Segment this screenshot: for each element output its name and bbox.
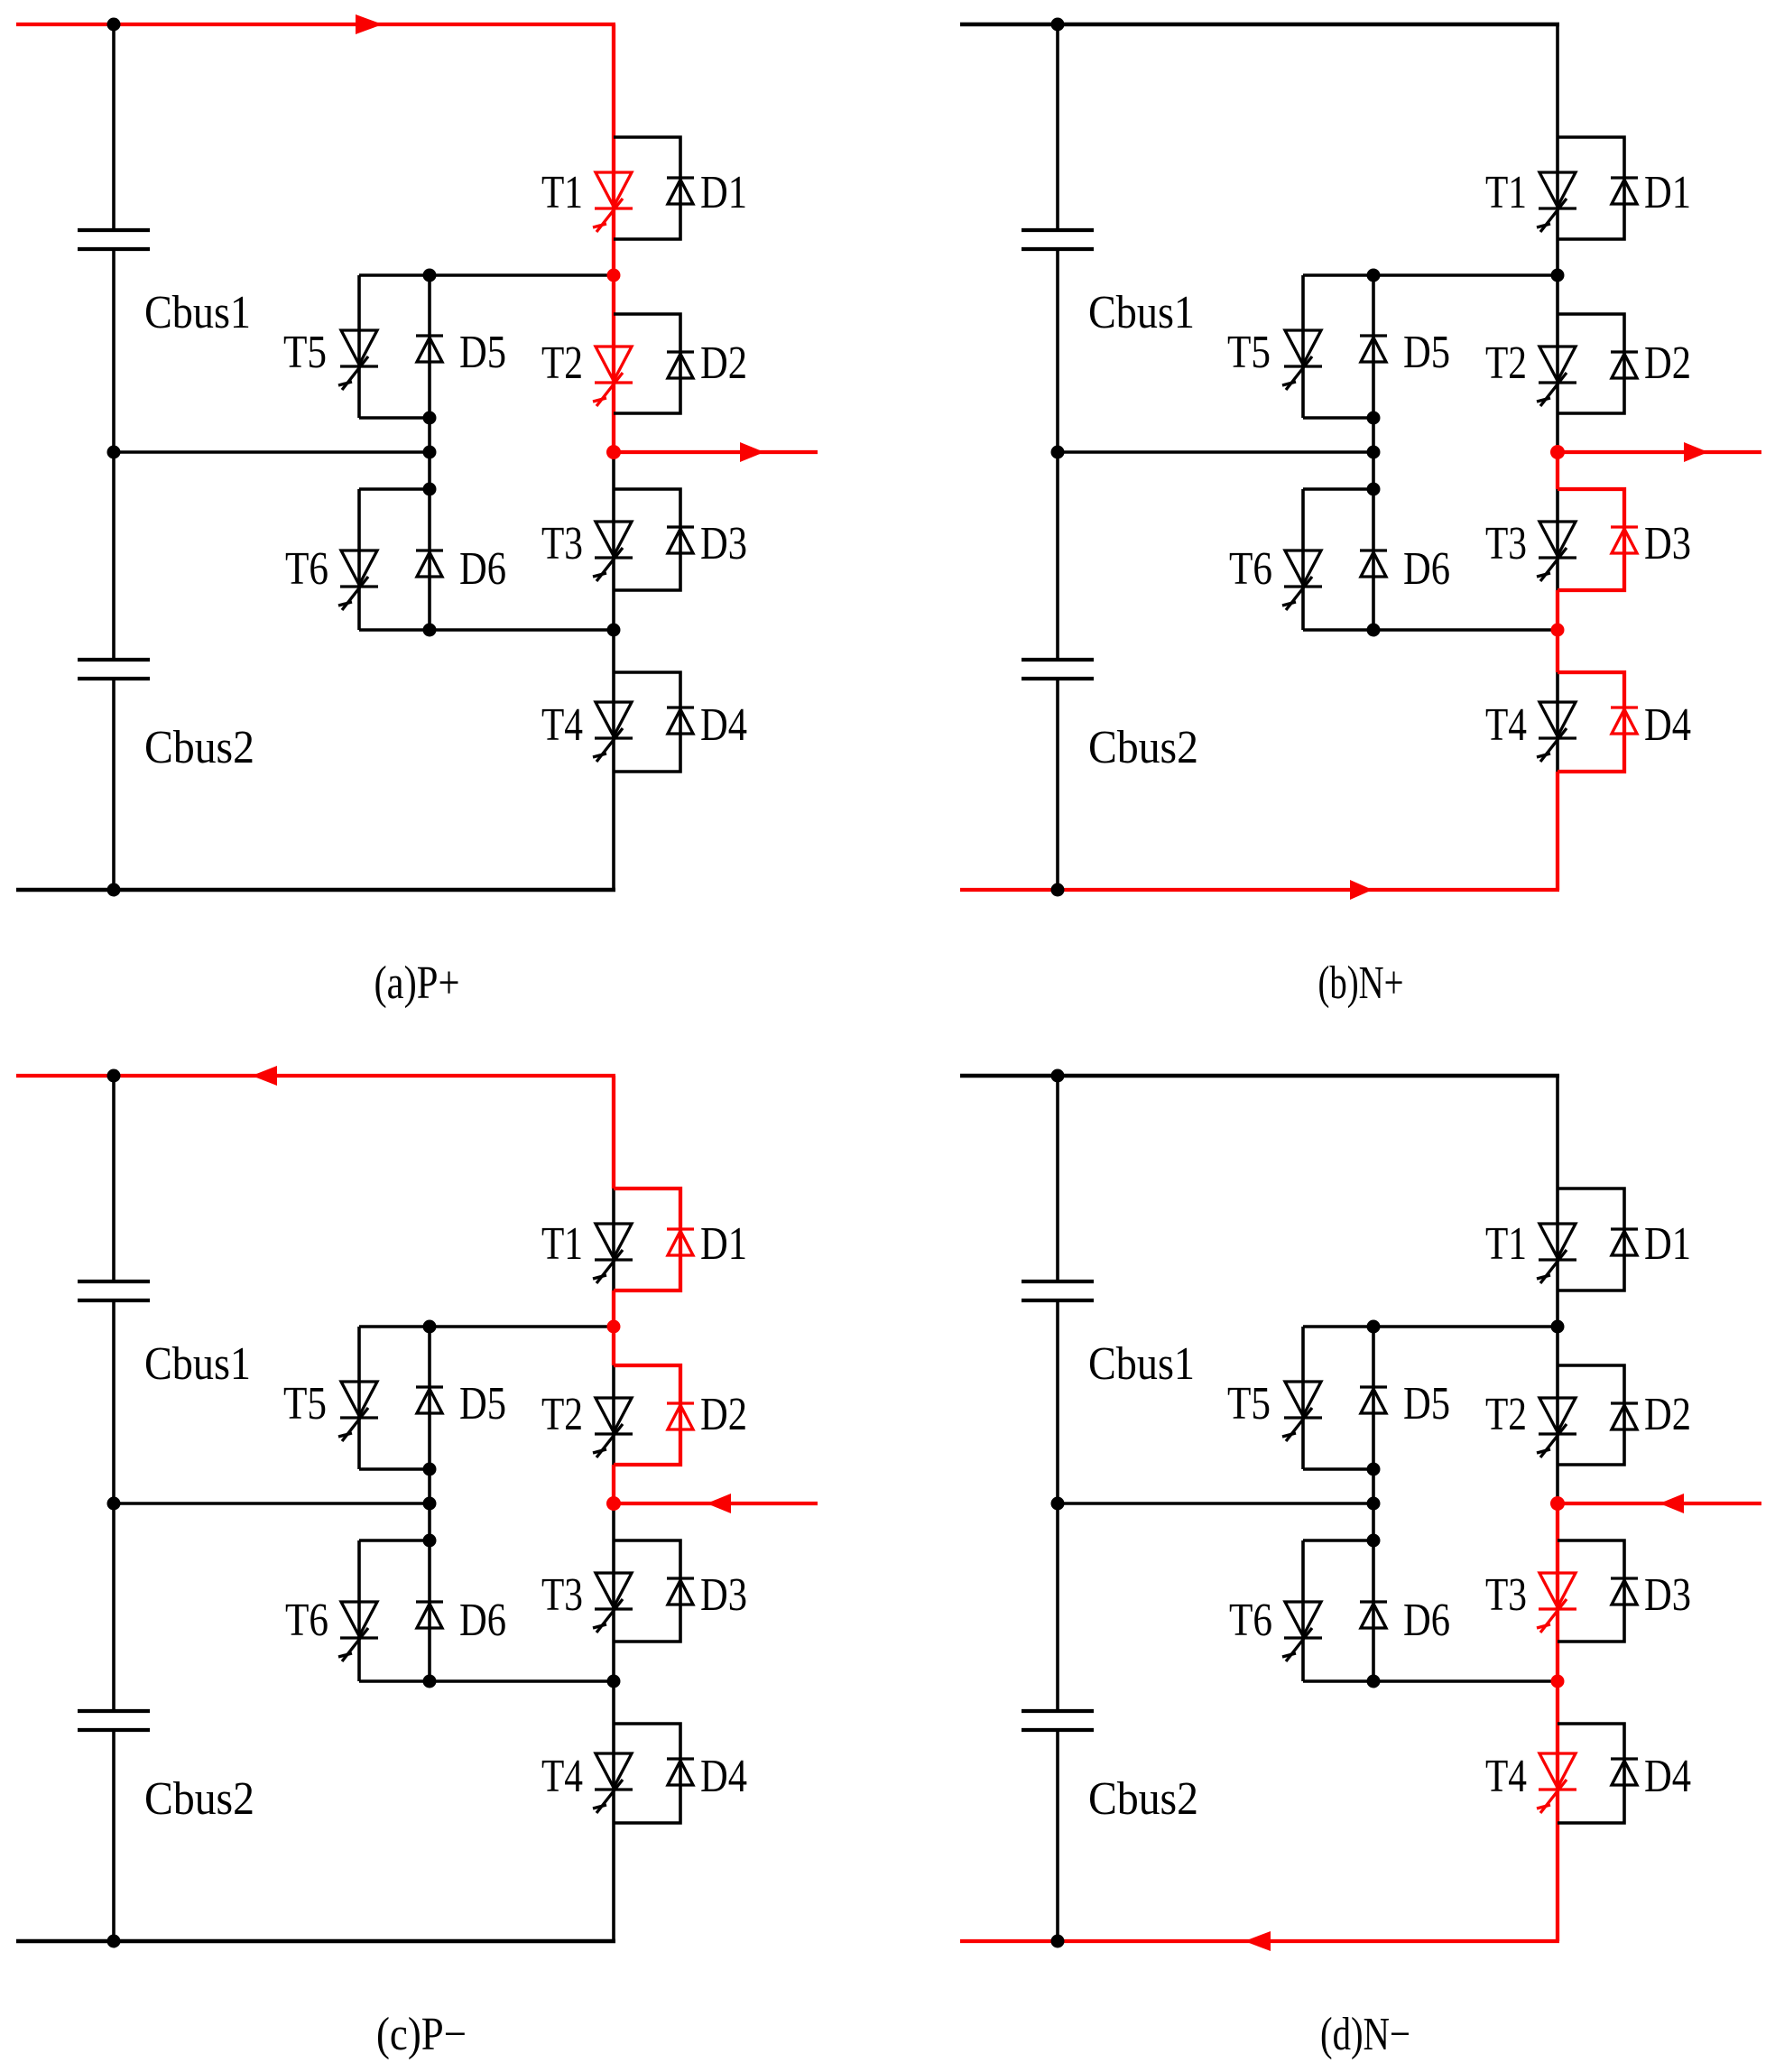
wire T5 top rail to main leg (panel b) xyxy=(1303,273,1558,277)
svg-text:T4: T4 xyxy=(541,699,583,751)
wire D3 loop (T3) branch (panel b) xyxy=(1558,489,1624,590)
wire D6 column (panel a) xyxy=(428,489,431,630)
thyristor T5 (panel b) xyxy=(1282,330,1322,390)
wire D1 loop (T1) branch (panel a) xyxy=(614,137,680,239)
wire DC-link left bus upper (panel d) xyxy=(1056,1076,1059,1280)
wire main leg T4-bottom (panel a) xyxy=(612,772,615,890)
wire DC-link left bus upper (panel c) xyxy=(112,1076,116,1280)
wire D1 loop (T1) branch (panel b) xyxy=(1558,137,1624,239)
node T1-T2 junction on main leg (panel b) xyxy=(1551,269,1565,282)
wire T6 branch vertical (panel b) xyxy=(1301,489,1305,630)
wire D5 column (panel c) xyxy=(428,1327,431,1540)
wire D2 loop (T2) branch (panel b) xyxy=(1558,314,1624,413)
wire main leg T1-T2 (panel b) xyxy=(1556,239,1559,314)
thyristor T4 (panel b) xyxy=(1537,702,1576,762)
node T6 loop top on D6 column (panel a) xyxy=(423,483,437,496)
svg-text:D1: D1 xyxy=(1644,167,1691,218)
svg-text:T3: T3 xyxy=(541,518,583,569)
thyristor T1 (panel b) xyxy=(1537,172,1576,232)
wire D6 column (panel d) xyxy=(1372,1540,1375,1681)
wire main leg top (panel d) xyxy=(1556,1076,1559,1189)
capacitor Cbus2 (panel d) xyxy=(1022,1709,1094,1713)
node bottom rail / left bus junction (panel c) xyxy=(107,1935,121,1948)
wire main leg T3 segment (panel d) xyxy=(1556,1540,1559,1642)
wire D1 loop (T1) branch (panel c) xyxy=(614,1189,680,1290)
diode D3 (panel a) xyxy=(667,527,694,553)
diode D6 (panel d) xyxy=(1360,1602,1387,1628)
wire DC- bottom rail (panel c) xyxy=(16,1939,615,1943)
diode D4 (panel b) xyxy=(1611,708,1638,734)
wire DC-link left bus middle (panel b) xyxy=(1056,251,1059,658)
wire main leg T2-output (panel d) xyxy=(1556,1465,1559,1503)
wire main leg output-T3 (panel a) xyxy=(612,452,615,489)
svg-text:Cbus1: Cbus1 xyxy=(144,1338,251,1390)
wire DC-link left bus lower (panel b) xyxy=(1056,680,1059,890)
wire T6 loop top (panel d) xyxy=(1303,1539,1373,1542)
diode D2 (panel c) xyxy=(667,1403,694,1429)
wire T5 top rail to main leg (panel d) xyxy=(1303,1325,1558,1328)
svg-text:Cbus2: Cbus2 xyxy=(1088,1773,1198,1825)
diode D1 (panel b) xyxy=(1611,178,1638,204)
wire D6 column (panel c) xyxy=(428,1540,431,1681)
node DC midpoint on left bus (panel b) xyxy=(1051,446,1065,459)
svg-text:(c)P−: (c)P− xyxy=(376,2009,467,2060)
svg-text:D2: D2 xyxy=(1644,1389,1691,1440)
current arrow on top rail (panel c) xyxy=(252,1066,277,1086)
svg-text:D6: D6 xyxy=(1403,543,1450,595)
wire D3 loop (T3) branch (panel a) xyxy=(614,489,680,590)
wire D2 loop (T2) branch (panel d) xyxy=(1558,1365,1624,1465)
node output junction (panel c) xyxy=(606,1496,621,1511)
wire main leg T1 segment (panel a) xyxy=(612,137,615,239)
wire T5 top rail to main leg (panel a) xyxy=(359,273,614,277)
node DC midpoint on left bus (panel d) xyxy=(1051,1497,1065,1511)
wire main leg top (panel a) xyxy=(612,24,615,137)
diode D6 (panel a) xyxy=(416,550,443,577)
svg-text:D3: D3 xyxy=(700,1569,747,1621)
node T1-T2 junction on main leg (panel a) xyxy=(607,269,621,282)
wire main leg T3 segment (panel a) xyxy=(612,489,615,590)
wire D1 loop (T1) branch (panel d) xyxy=(1558,1189,1624,1290)
diode D4 (panel d) xyxy=(1611,1759,1638,1785)
wire main leg T4 segment (panel c) xyxy=(612,1724,615,1823)
wire T5 top rail to main leg (panel c) xyxy=(359,1325,614,1328)
wire T6 loop top (panel b) xyxy=(1303,487,1373,491)
node output junction (panel a) xyxy=(606,445,621,459)
wire D4 loop (T4) branch (panel c) xyxy=(614,1724,680,1823)
wire midpoint to clamp (panel b) xyxy=(1058,450,1373,454)
diode D4 (panel a) xyxy=(667,708,694,734)
wire AC output (panel c) xyxy=(614,1502,818,1505)
wire AC output (panel b) xyxy=(1558,450,1761,454)
wire DC-link left bus lower (panel d) xyxy=(1056,1732,1059,1941)
wire DC-link left bus middle (panel c) xyxy=(112,1302,116,1709)
thyristor T2 (panel a) xyxy=(593,347,633,406)
node midpoint wire on D5 column (panel a) xyxy=(423,446,437,459)
svg-text:D2: D2 xyxy=(700,338,747,389)
svg-text:T3: T3 xyxy=(1485,1569,1527,1621)
wire D5 column (panel b) xyxy=(1372,275,1375,489)
node clamp bottom on D6 column (panel d) xyxy=(1367,1675,1381,1688)
current arrow on output (panel c) xyxy=(707,1494,731,1513)
wire T5 branch vertical (panel b) xyxy=(1301,275,1305,418)
wire T6 loop top (panel a) xyxy=(359,487,430,491)
thyristor T6 (panel b) xyxy=(1282,550,1322,610)
thyristor T4 (panel d) xyxy=(1537,1753,1576,1813)
thyristor T3 (panel b) xyxy=(1537,522,1576,581)
node clamp top on D5 column (panel c) xyxy=(423,1320,437,1334)
node T3-T4 junction on main leg (panel a) xyxy=(607,624,621,637)
svg-text:(a)P+: (a)P+ xyxy=(374,957,460,1009)
wire D4 loop (T4) branch (panel b) xyxy=(1558,672,1624,772)
diode D5 (panel a) xyxy=(416,336,443,362)
node midpoint wire on D5 column (panel c) xyxy=(423,1497,437,1511)
capacitor Cbus1 (panel d) xyxy=(1022,1280,1094,1283)
wire DC+ top rail (panel a) xyxy=(16,23,615,26)
node T3-T4 junction on main leg (panel d) xyxy=(1551,1675,1565,1688)
wire main leg T3-T4 (panel d) xyxy=(1556,1642,1559,1724)
svg-text:D3: D3 xyxy=(700,518,747,569)
svg-text:T6: T6 xyxy=(285,1595,328,1646)
wire T5 loop bottom (panel b) xyxy=(1303,416,1373,420)
wire midpoint to clamp (panel c) xyxy=(114,1502,430,1505)
node top rail / left bus junction (panel c) xyxy=(107,1069,121,1083)
svg-text:T4: T4 xyxy=(1485,1751,1527,1802)
wire AC output (panel d) xyxy=(1558,1502,1761,1505)
wire main leg output-T3 (panel c) xyxy=(612,1503,615,1540)
node T5 loop bottom on D5 column (panel a) xyxy=(423,412,437,425)
thyristor T2 (panel c) xyxy=(593,1398,633,1457)
svg-text:D2: D2 xyxy=(700,1389,747,1440)
svg-text:D4: D4 xyxy=(1644,699,1691,751)
svg-text:D5: D5 xyxy=(1403,1378,1450,1429)
svg-text:D6: D6 xyxy=(459,1595,506,1646)
wire main leg T2 segment (panel c) xyxy=(612,1365,615,1465)
node bottom rail / left bus junction (panel a) xyxy=(107,883,121,897)
svg-text:Cbus2: Cbus2 xyxy=(1088,722,1198,773)
node T5 loop bottom on D5 column (panel b) xyxy=(1367,412,1381,425)
diode D2 (panel a) xyxy=(667,352,694,378)
svg-text:T3: T3 xyxy=(541,1569,583,1621)
wire main leg T4 segment (panel b) xyxy=(1556,672,1559,772)
wire clamp bottom to main leg (panel c) xyxy=(359,1679,614,1683)
wire T6 branch vertical (panel d) xyxy=(1301,1540,1305,1681)
svg-text:T2: T2 xyxy=(541,1389,583,1440)
thyristor T4 (panel a) xyxy=(593,702,633,762)
svg-text:T6: T6 xyxy=(285,543,328,595)
diode D5 (panel b) xyxy=(1360,336,1387,362)
node T1-T2 junction on main leg (panel c) xyxy=(607,1320,621,1334)
wire midpoint to clamp (panel a) xyxy=(114,450,430,454)
node T5 loop bottom on D5 column (panel d) xyxy=(1367,1463,1381,1476)
thyristor T2 (panel b) xyxy=(1537,347,1576,406)
capacitor Cbus2 (panel b) xyxy=(1022,658,1094,661)
thyristor T2 (panel d) xyxy=(1537,1398,1576,1457)
node top rail / left bus junction (panel d) xyxy=(1051,1069,1065,1083)
svg-text:T6: T6 xyxy=(1229,1595,1272,1646)
svg-text:D4: D4 xyxy=(700,1751,747,1802)
wire T6 branch vertical (panel c) xyxy=(357,1540,361,1681)
svg-text:T4: T4 xyxy=(1485,699,1527,751)
wire main leg T4-bottom (panel d) xyxy=(1556,1823,1559,1941)
wire DC- bottom rail (panel a) xyxy=(16,888,615,892)
wire midpoint to clamp (panel d) xyxy=(1058,1502,1373,1505)
svg-text:Cbus2: Cbus2 xyxy=(144,1773,254,1825)
svg-text:D1: D1 xyxy=(1644,1218,1691,1270)
wire T5 loop bottom (panel d) xyxy=(1303,1467,1373,1471)
wire main leg T4-bottom (panel b) xyxy=(1556,772,1559,890)
svg-text:T5: T5 xyxy=(1227,327,1271,378)
svg-text:D3: D3 xyxy=(1644,518,1691,569)
svg-text:T2: T2 xyxy=(1485,338,1527,389)
thyristor T1 (panel d) xyxy=(1537,1224,1576,1283)
wire DC-link left bus lower (panel a) xyxy=(112,680,116,890)
wire main leg T3-T4 (panel b) xyxy=(1556,590,1559,672)
diode D5 (panel d) xyxy=(1360,1387,1387,1413)
node clamp bottom on D6 column (panel b) xyxy=(1367,624,1381,637)
svg-text:D2: D2 xyxy=(1644,338,1691,389)
wire main leg T2 segment (panel a) xyxy=(612,314,615,413)
thyristor T6 (panel c) xyxy=(338,1602,378,1661)
node output junction (panel b) xyxy=(1550,445,1565,459)
wire main leg output-T3 (panel b) xyxy=(1556,452,1559,489)
node midpoint wire on D5 column (panel d) xyxy=(1367,1497,1381,1511)
wire clamp bottom to main leg (panel d) xyxy=(1303,1679,1558,1683)
svg-text:T1: T1 xyxy=(541,167,583,218)
wire main leg T3-T4 (panel a) xyxy=(612,590,615,672)
wire T6 branch vertical (panel a) xyxy=(357,489,361,630)
wire DC- bottom rail (panel b) xyxy=(960,888,1559,892)
wire main leg top (panel c) xyxy=(612,1076,615,1189)
svg-text:Cbus1: Cbus1 xyxy=(144,287,251,338)
wire main leg T4-bottom (panel c) xyxy=(612,1823,615,1941)
wire T5 loop bottom (panel a) xyxy=(359,416,430,420)
diode D1 (panel a) xyxy=(667,178,694,204)
diode D2 (panel d) xyxy=(1611,1403,1638,1429)
wire T5 branch vertical (panel d) xyxy=(1301,1327,1305,1469)
wire main leg T1 segment (panel c) xyxy=(612,1189,615,1290)
diode D3 (panel c) xyxy=(667,1578,694,1605)
node bottom rail / left bus junction (panel d) xyxy=(1051,1935,1065,1948)
wire main leg T4 segment (panel d) xyxy=(1556,1724,1559,1823)
svg-text:T2: T2 xyxy=(1485,1389,1527,1440)
wire T5 branch vertical (panel a) xyxy=(357,275,361,418)
wire D3 loop (T3) branch (panel d) xyxy=(1558,1540,1624,1642)
wire DC+ top rail (panel c) xyxy=(16,1074,615,1078)
wire main leg T2 segment (panel d) xyxy=(1556,1365,1559,1465)
svg-text:T1: T1 xyxy=(541,1218,583,1270)
node DC midpoint on left bus (panel c) xyxy=(107,1497,121,1511)
thyristor T1 (panel c) xyxy=(593,1224,633,1283)
node top rail / left bus junction (panel b) xyxy=(1051,18,1065,32)
wire D4 loop (T4) branch (panel a) xyxy=(614,672,680,772)
wire D5 column (panel d) xyxy=(1372,1327,1375,1540)
wire main leg T1-T2 (panel a) xyxy=(612,239,615,314)
svg-text:T4: T4 xyxy=(541,1751,583,1802)
wire D3 loop (T3) branch (panel c) xyxy=(614,1540,680,1642)
svg-text:D5: D5 xyxy=(459,327,506,378)
diode D6 (panel b) xyxy=(1360,550,1387,577)
node T5 loop bottom on D5 column (panel c) xyxy=(423,1463,437,1476)
wire AC output (panel a) xyxy=(614,450,818,454)
wire main leg output-T3 (panel d) xyxy=(1556,1503,1559,1540)
wire T5 loop bottom (panel c) xyxy=(359,1467,430,1471)
wire main leg T2-output (panel c) xyxy=(612,1465,615,1503)
svg-text:T6: T6 xyxy=(1229,543,1272,595)
wire T6 loop top (panel c) xyxy=(359,1539,430,1542)
wire main leg T4 segment (panel a) xyxy=(612,672,615,772)
wire D4 loop (T4) branch (panel d) xyxy=(1558,1724,1624,1823)
node top rail / left bus junction (panel a) xyxy=(107,18,121,32)
diode D3 (panel d) xyxy=(1611,1578,1638,1605)
node clamp bottom on D6 column (panel c) xyxy=(423,1675,437,1688)
node T3-T4 junction on main leg (panel c) xyxy=(607,1675,621,1688)
wire main leg T1 segment (panel b) xyxy=(1556,137,1559,239)
diode D5 (panel c) xyxy=(416,1387,443,1413)
diode D6 (panel c) xyxy=(416,1602,443,1628)
thyristor T1 (panel a) xyxy=(593,172,633,232)
wire D2 loop (T2) branch (panel a) xyxy=(614,314,680,413)
thyristor T5 (panel d) xyxy=(1282,1382,1322,1441)
capacitor Cbus2 (panel a) xyxy=(78,658,150,661)
svg-text:T5: T5 xyxy=(283,327,327,378)
current arrow on bottom rail (panel b) xyxy=(1350,880,1373,900)
diode D1 (panel c) xyxy=(667,1229,694,1255)
svg-text:Cbus2: Cbus2 xyxy=(144,722,254,773)
thyristor T6 (panel a) xyxy=(338,550,378,610)
svg-text:Cbus1: Cbus1 xyxy=(1088,1338,1195,1390)
wire clamp bottom to main leg (panel b) xyxy=(1303,628,1558,632)
wire DC-link left bus upper (panel a) xyxy=(112,24,116,228)
wire DC-link left bus middle (panel d) xyxy=(1056,1302,1059,1709)
wire main leg T3-T4 (panel c) xyxy=(612,1642,615,1724)
diode D4 (panel c) xyxy=(667,1759,694,1785)
wire DC+ top rail (panel d) xyxy=(960,1074,1559,1078)
node midpoint wire on D5 column (panel b) xyxy=(1367,446,1381,459)
svg-text:T5: T5 xyxy=(1227,1378,1271,1429)
wire main leg T2-output (panel a) xyxy=(612,413,615,452)
wire D2 loop (T2) branch (panel c) xyxy=(614,1365,680,1465)
thyristor T3 (panel d) xyxy=(1537,1573,1576,1633)
wire T5 branch vertical (panel c) xyxy=(357,1327,361,1469)
wire main leg T3 segment (panel c) xyxy=(612,1540,615,1642)
current arrow on output (panel a) xyxy=(740,442,764,462)
svg-text:D3: D3 xyxy=(1644,1569,1691,1621)
wire DC-link left bus middle (panel a) xyxy=(112,251,116,658)
current arrow on top rail (panel a) xyxy=(356,14,383,34)
svg-text:D6: D6 xyxy=(1403,1595,1450,1646)
svg-text:T3: T3 xyxy=(1485,518,1527,569)
diode D1 (panel d) xyxy=(1611,1229,1638,1255)
node clamp top on D5 column (panel b) xyxy=(1367,269,1381,282)
current arrow on bottom rail (panel d) xyxy=(1244,1931,1271,1951)
wire main leg T2 segment (panel b) xyxy=(1556,314,1559,413)
capacitor Cbus1 (panel b) xyxy=(1022,228,1094,232)
current arrow on output (panel d) xyxy=(1659,1494,1684,1513)
node clamp bottom on D6 column (panel a) xyxy=(423,624,437,637)
node bottom rail / left bus junction (panel b) xyxy=(1051,883,1065,897)
wire main leg T1-T2 (panel c) xyxy=(612,1290,615,1365)
svg-text:Cbus1: Cbus1 xyxy=(1088,287,1195,338)
svg-text:D1: D1 xyxy=(700,167,747,218)
thyristor T6 (panel d) xyxy=(1282,1602,1322,1661)
svg-text:D4: D4 xyxy=(1644,1751,1691,1802)
svg-text:D5: D5 xyxy=(1403,327,1450,378)
node T6 loop top on D6 column (panel d) xyxy=(1367,1534,1381,1548)
current arrow on output (panel b) xyxy=(1684,442,1708,462)
wire DC-link left bus lower (panel c) xyxy=(112,1732,116,1941)
diode D3 (panel b) xyxy=(1611,527,1638,553)
svg-text:(b)N+: (b)N+ xyxy=(1318,957,1404,1009)
svg-text:(d)N−: (d)N− xyxy=(1320,2009,1410,2060)
thyristor T5 (panel a) xyxy=(338,330,378,390)
svg-text:T1: T1 xyxy=(1485,167,1527,218)
wire DC- bottom rail (panel d) xyxy=(960,1939,1559,1943)
node clamp top on D5 column (panel d) xyxy=(1367,1320,1381,1334)
capacitor Cbus1 (panel a) xyxy=(78,228,150,232)
thyristor T3 (panel a) xyxy=(593,522,633,581)
thyristor T4 (panel c) xyxy=(593,1753,633,1813)
svg-text:D5: D5 xyxy=(459,1378,506,1429)
svg-text:D1: D1 xyxy=(700,1218,747,1270)
wire main leg T2-output (panel b) xyxy=(1556,413,1559,452)
wire DC+ top rail (panel b) xyxy=(960,23,1559,26)
node clamp top on D5 column (panel a) xyxy=(423,269,437,282)
diode D2 (panel b) xyxy=(1611,352,1638,378)
node T3-T4 junction on main leg (panel b) xyxy=(1551,624,1565,637)
node T6 loop top on D6 column (panel b) xyxy=(1367,483,1381,496)
wire DC-link left bus upper (panel b) xyxy=(1056,24,1059,228)
wire main leg top (panel b) xyxy=(1556,24,1559,137)
svg-text:T5: T5 xyxy=(283,1378,327,1429)
node DC midpoint on left bus (panel a) xyxy=(107,446,121,459)
thyristor T5 (panel c) xyxy=(338,1382,378,1441)
node output junction (panel d) xyxy=(1550,1496,1565,1511)
thyristor T3 (panel c) xyxy=(593,1573,633,1633)
wire clamp bottom to main leg (panel a) xyxy=(359,628,614,632)
wire main leg T3 segment (panel b) xyxy=(1556,489,1559,590)
wire main leg T1-T2 (panel d) xyxy=(1556,1290,1559,1365)
capacitor Cbus2 (panel c) xyxy=(78,1709,150,1713)
svg-text:T1: T1 xyxy=(1485,1218,1527,1270)
svg-text:D6: D6 xyxy=(459,543,506,595)
svg-text:D4: D4 xyxy=(700,699,747,751)
node T1-T2 junction on main leg (panel d) xyxy=(1551,1320,1565,1334)
wire D6 column (panel b) xyxy=(1372,489,1375,630)
svg-text:T2: T2 xyxy=(541,338,583,389)
capacitor Cbus1 (panel c) xyxy=(78,1280,150,1283)
wire D5 column (panel a) xyxy=(428,275,431,489)
node T6 loop top on D6 column (panel c) xyxy=(423,1534,437,1548)
wire main leg T1 segment (panel d) xyxy=(1556,1189,1559,1290)
